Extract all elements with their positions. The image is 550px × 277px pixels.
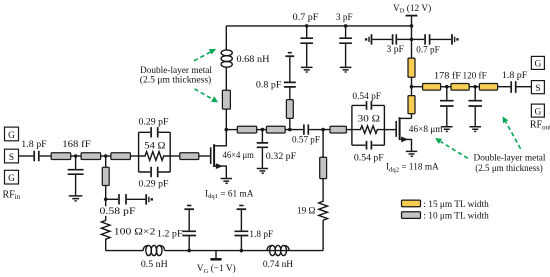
wire to TLv19 xyxy=(322,179,324,198)
capacitor 0.29 pF bottom xyxy=(151,167,158,177)
label 0.58 pF xyxy=(99,206,136,217)
wire TLv to 0.8 cap xyxy=(289,88,291,100)
wire 1.8pF branch xyxy=(240,236,242,250)
svg-text:3 pF: 3 pF xyxy=(387,45,404,55)
wire TLa to TLb xyxy=(257,129,267,131)
svg-text:S: S xyxy=(9,153,14,163)
svg-text:0.58 pF: 0.58 pF xyxy=(100,207,136,217)
svg-text:1.2 pF: 1.2 pF xyxy=(157,230,183,240)
inductor 0.74 nH xyxy=(263,245,293,269)
TLb 10um xyxy=(266,126,285,133)
svg-text:VD (12 V): VD (12 V) xyxy=(393,3,431,15)
svg-text:168 fF: 168 fF xyxy=(62,139,90,150)
node 1.2pF xyxy=(187,249,191,253)
capacitor 0.54 pF bottom xyxy=(367,141,372,150)
VD vertical wire xyxy=(411,26,413,58)
bypass symbol left (VD row) xyxy=(365,34,372,44)
capacitor 0.7 pF series (VD right) xyxy=(425,34,430,44)
svg-text:G: G xyxy=(535,60,542,70)
svg-text:1.8 pF: 1.8 pF xyxy=(249,230,273,240)
node output junction xyxy=(410,85,414,89)
svg-text:0.29 pF: 0.29 pF xyxy=(139,180,169,190)
svg-text:G: G xyxy=(535,107,542,117)
TLv under inductor (double layer) xyxy=(222,90,230,109)
ground 3pF rail xyxy=(340,67,352,72)
wire xyxy=(441,86,451,88)
wire TL2 to TL3 xyxy=(101,155,111,157)
wire TLv1 down through node xyxy=(105,186,107,221)
legend 15um TL xyxy=(402,200,490,210)
node J2 xyxy=(104,154,108,158)
svg-text:0.8 pF: 0.8 pF xyxy=(256,80,282,90)
ground 0.32pF xyxy=(257,169,268,174)
bypass symbol above 1.8 pF xyxy=(237,206,247,210)
wire C1 to TL1 xyxy=(40,155,52,157)
svg-text:Double-layer metal: Double-layer metal xyxy=(140,66,212,76)
green arrow to output TL xyxy=(503,116,521,148)
TL3 10um xyxy=(111,153,130,160)
wire TLy3 to 1.8 cap xyxy=(498,86,511,88)
capacitor 0.29 pF top xyxy=(151,127,158,137)
wire to ground xyxy=(75,175,77,195)
legend 10um TL xyxy=(402,212,490,222)
svg-text:0.32 pF: 0.32 pF xyxy=(266,152,296,162)
svg-text:0.68 nH: 0.68 nH xyxy=(237,55,270,65)
annotation left: double-layer metal xyxy=(140,66,213,86)
TLa 10um xyxy=(237,126,256,133)
output pad S xyxy=(531,81,544,94)
capacitor 0.7 pF rail shunt xyxy=(293,13,319,67)
wire box to TL4 xyxy=(170,155,180,157)
svg-text:(2.5 μm thickness): (2.5 μm thickness) xyxy=(140,75,212,86)
wire TLv to inductor xyxy=(225,67,227,90)
svg-text:: 15 μm TL width: : 15 μm TL width xyxy=(423,200,489,210)
capacitor 3 pF series (VD left) xyxy=(393,34,397,44)
resistor 54 ohm xyxy=(139,152,171,161)
svg-text:Double-layer metal: Double-layer metal xyxy=(473,153,545,163)
wire TL1 to TL2 xyxy=(71,155,81,157)
svg-text:120 fF: 120 fF xyxy=(463,70,487,81)
inductor 0.5 nH xyxy=(141,245,168,269)
node rail VD xyxy=(410,24,414,28)
wire TL3 to 54 box xyxy=(130,155,138,157)
wire J2 down to TLv1 xyxy=(105,156,107,167)
wire 30 box to gate Q2 xyxy=(384,129,395,131)
bypass symbol above 0.8 pF xyxy=(285,53,294,57)
node 3pF rail xyxy=(344,24,348,28)
TL2 10um xyxy=(81,153,101,160)
capacitor 0.58 pF series xyxy=(119,194,126,204)
svg-text:S: S xyxy=(535,84,540,94)
green arrow to TLv xyxy=(195,89,219,102)
svg-text:0.29 pF: 0.29 pF xyxy=(139,117,169,127)
ground (input shunt) xyxy=(69,196,83,201)
wire 1.2pF branch xyxy=(188,236,190,250)
wire bottom right corner up xyxy=(322,220,324,250)
output line wire xyxy=(412,86,423,88)
svg-text:54 Ω: 54 Ω xyxy=(144,142,165,152)
wire up to bypass xyxy=(240,210,242,230)
TL4 10um xyxy=(180,153,199,160)
svg-text:0.54 pF: 0.54 pF xyxy=(354,153,384,163)
output pad G bottom xyxy=(531,104,544,117)
input pad G top xyxy=(5,127,19,141)
capacitor 0.57 pF series xyxy=(292,124,320,145)
svg-text:1.8 pF: 1.8 pF xyxy=(21,140,46,150)
annotation right: double-layer metal xyxy=(473,153,545,174)
wire S pad to C1 xyxy=(19,155,34,157)
svg-text:3 pF: 3 pF xyxy=(336,13,353,23)
wire 1.8 cap to S pad xyxy=(517,86,532,88)
wire TLy2 to Q2 drain xyxy=(411,114,413,119)
wire C 0.58 to bypass xyxy=(127,198,146,200)
node 178fF xyxy=(445,85,449,89)
wire VD line to 0.7pF cap right xyxy=(412,38,425,40)
bypass symbol (off-chip) right of 0.58 pF xyxy=(146,194,153,204)
green arrow to inductor xyxy=(194,49,216,61)
resistor 30 ohm xyxy=(352,126,385,134)
VD supply tap xyxy=(393,3,431,26)
TLy out2 (15um) xyxy=(451,84,469,91)
30 ohm parallel box frame xyxy=(352,105,385,145)
svg-text:0.5 nH: 0.5 nH xyxy=(141,260,168,270)
svg-text:178 fF: 178 fF xyxy=(434,70,461,81)
wire cap to bypass right xyxy=(430,38,451,40)
capacitor 0.54 pF top xyxy=(367,101,372,110)
svg-text:100 Ω×2: 100 Ω×2 xyxy=(114,228,156,238)
transistor Q2 46x8 um xyxy=(396,117,411,151)
resistor 19 ohm xyxy=(319,198,328,221)
wire xyxy=(469,86,479,88)
ground Q2 source xyxy=(406,151,417,156)
ground 0.7pF rail xyxy=(301,67,313,72)
svg-text:1.8 pF: 1.8 pF xyxy=(502,71,527,81)
svg-text:0.7 pF: 0.7 pF xyxy=(416,46,439,56)
svg-text:(2.5 μm thickness): (2.5 μm thickness) xyxy=(475,163,543,174)
input pad S xyxy=(5,149,19,163)
node 1.8pF xyxy=(240,249,244,253)
TLc 10um xyxy=(330,126,346,133)
wire TL4 to gate Q1 xyxy=(199,155,210,157)
wire TLc to 30 box xyxy=(346,129,352,131)
svg-text:19 Ω: 19 Ω xyxy=(297,206,315,216)
inductor 0.68 nH xyxy=(221,50,270,67)
wire drain node up xyxy=(225,109,227,130)
green arrow to Q2 xyxy=(435,138,468,158)
node 0.58 branch xyxy=(104,198,108,202)
top rail xyxy=(226,25,411,27)
output pad G top xyxy=(531,56,544,69)
capacitor 1.2 pF xyxy=(182,231,196,235)
svg-text:46×8 μm: 46×8 μm xyxy=(409,125,443,135)
svg-text:0.74 nH: 0.74 nH xyxy=(263,260,293,270)
wire 0.8 cap to bypass xyxy=(289,57,291,81)
node drain Q1 xyxy=(225,128,229,132)
capacitor 178 fF shunt xyxy=(440,87,454,127)
input pad G bottom xyxy=(5,170,19,184)
svg-text:G: G xyxy=(8,131,15,141)
wire up to bypass xyxy=(188,210,190,230)
svg-text:VG (−1 V): VG (−1 V) xyxy=(197,263,236,275)
wire 0.8 branch up xyxy=(289,118,291,129)
TLv1 vertical 10um xyxy=(102,167,109,185)
svg-text:G: G xyxy=(8,174,15,184)
TLv 0.8 branch xyxy=(286,100,293,119)
TLy out3 (15um) xyxy=(479,84,497,91)
ground 178fF xyxy=(441,127,453,132)
capacitor 1.8 pF output series xyxy=(502,71,527,93)
node 120fF xyxy=(473,85,477,89)
ground 120fF xyxy=(469,127,481,132)
capacitor 120 fF shunt xyxy=(468,87,482,127)
54 ohm parallel box frame xyxy=(139,132,171,172)
bottom bias wire left xyxy=(106,250,144,252)
bypass symbol above 1.2 pF xyxy=(184,206,194,210)
wire node to C 0.58 xyxy=(106,198,119,200)
TLv on 19ohm branch xyxy=(320,157,327,178)
bottom wire to VG xyxy=(165,250,324,252)
svg-text:0.57 pF: 0.57 pF xyxy=(292,136,320,146)
ground Q1 source xyxy=(221,179,232,184)
node 0.7pF rail xyxy=(305,24,309,28)
wire TLb to 0.57 cap xyxy=(285,129,303,131)
TLy out1 (15um) xyxy=(423,84,441,91)
wire between TLy xyxy=(411,77,413,95)
bypass symbol right (VD row) xyxy=(452,34,459,44)
svg-text:30 Ω: 30 Ω xyxy=(358,115,380,125)
node 19ohm branch xyxy=(321,128,325,132)
node VD bypass row xyxy=(410,38,414,42)
node J1 xyxy=(74,154,78,158)
drain line stage1: wire node to TLa xyxy=(226,129,237,131)
transistor Q1 46x4 um xyxy=(211,130,227,178)
capacitor 3 pF rail shunt xyxy=(336,13,353,67)
svg-text:0.7 pF: 0.7 pF xyxy=(293,13,319,23)
svg-text:46×4 μm: 46×4 μm xyxy=(223,151,255,161)
node 0.8 branch xyxy=(288,128,292,132)
capacitor 0.32 pF shunt xyxy=(257,130,296,168)
capacitor 1.8 pF shunt xyxy=(235,231,249,235)
TLy vertical 2 (15um) xyxy=(408,96,415,114)
VG tap xyxy=(197,251,236,275)
wire inductor to top rail xyxy=(225,26,227,50)
svg-text:0.54 pF: 0.54 pF xyxy=(352,92,381,102)
wire J1 down xyxy=(75,156,77,169)
capacitor 0.8 pF xyxy=(256,80,296,90)
wire cap to VD line xyxy=(397,38,411,40)
svg-text:: 10 μm TL width: : 10 μm TL width xyxy=(423,212,489,222)
node 0.32 branch xyxy=(261,128,265,132)
resistor 100 ohm x2 xyxy=(101,220,110,250)
TLy vertical 1 (15um) xyxy=(408,58,415,77)
capacitor 168fF shunt xyxy=(68,170,84,175)
wire TLv to drain line xyxy=(322,130,324,158)
TL1 10um xyxy=(51,153,70,160)
wire bypass to 3pF cap xyxy=(372,38,391,40)
wire 0.57 cap to TLc xyxy=(309,129,330,131)
capacitor C1 1.8 pF (series input) xyxy=(21,140,46,161)
